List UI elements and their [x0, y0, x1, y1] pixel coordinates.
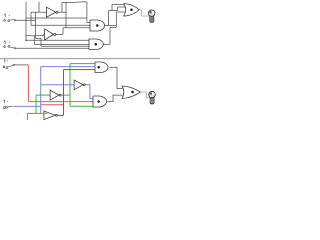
wire — [109, 28, 111, 45]
wire U10 to OR2 — [107, 95, 122, 101]
wire — [61, 3, 63, 13]
inverter U8 — [44, 111, 57, 120]
wire — [26, 39, 89, 41]
wire — [86, 2, 88, 23]
separator — [0, 58, 160, 60]
wire — [118, 6, 126, 8]
wire — [31, 11, 47, 13]
wire — [58, 11, 66, 13]
wire — [33, 36, 35, 45]
wire OR1 to lamp — [139, 10, 149, 16]
wire — [103, 43, 110, 45]
wire — [25, 2, 27, 41]
wire — [116, 11, 125, 13]
lamp L1 — [148, 10, 155, 23]
wire — [63, 27, 90, 29]
wire — [112, 4, 125, 6]
inverter U7 — [74, 80, 85, 90]
switch SW3 — [3, 60, 14, 69]
wire — [16, 47, 89, 49]
wire — [36, 12, 90, 46]
wire U9 to OR2 — [109, 67, 122, 88]
wire — [117, 7, 119, 11]
and-gate U10 — [93, 96, 107, 107]
or-gate U5 — [124, 4, 139, 16]
wire — [56, 28, 63, 35]
wire — [34, 43, 89, 45]
wire — [44, 34, 45, 35]
node junction — [25, 40, 27, 42]
net A red — [28, 65, 93, 102]
wire — [109, 10, 118, 12]
wire — [115, 12, 117, 28]
inverter U6 — [50, 90, 61, 100]
wire — [15, 64, 29, 66]
net B blue — [14, 67, 96, 114]
net green — [36, 64, 95, 114]
wire — [62, 1, 87, 4]
lamp L2 — [149, 91, 156, 104]
net red mid run — [41, 104, 64, 106]
and-gate U3 — [90, 20, 105, 31]
wire — [30, 12, 32, 25]
wire — [31, 24, 90, 26]
wire — [104, 25, 116, 27]
switch SW4 — [4, 100, 14, 109]
wire — [108, 11, 110, 26]
wire — [110, 27, 116, 29]
wire OR2 to lamp — [141, 92, 151, 98]
inverter U2 — [45, 29, 56, 40]
net Bbar maroon horizontal — [64, 69, 96, 71]
wire — [26, 35, 44, 37]
wire — [38, 2, 40, 12]
and-gate U9 — [95, 62, 108, 73]
wire — [65, 2, 67, 28]
wire — [26, 17, 87, 19]
switch SW1 — [4, 14, 16, 22]
and-gate U4 — [89, 39, 103, 50]
switch SW2 — [4, 41, 16, 49]
wire — [16, 19, 36, 21]
net A red lower run — [28, 113, 48, 120]
wire — [111, 5, 113, 11]
net Bbar maroon vertical — [58, 70, 64, 116]
wire — [87, 22, 90, 24]
inverter U1 — [47, 7, 59, 17]
or-gate U11 — [122, 86, 141, 98]
